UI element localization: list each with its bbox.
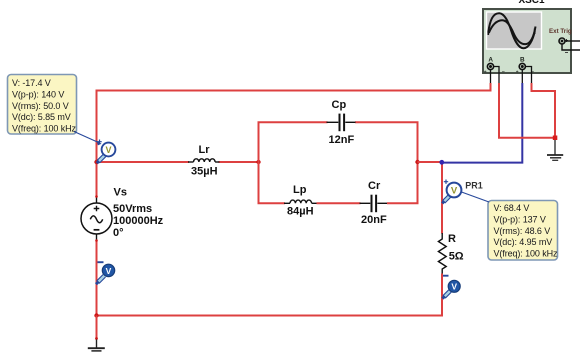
terminal A <box>487 63 493 69</box>
svg-text:V(p-p): 137 V: V(p-p): 137 V <box>494 214 546 224</box>
svg-text:0°: 0° <box>113 227 124 239</box>
resistor R <box>438 233 446 274</box>
svg-text:Ext Trig: Ext Trig <box>549 28 572 35</box>
svg-text:Lr: Lr <box>199 144 211 156</box>
svg-text:5Ω: 5Ω <box>449 251 464 263</box>
svg-text:Vs: Vs <box>114 187 127 199</box>
leader line PR1 <box>462 192 490 202</box>
svg-text:V: V <box>106 266 112 276</box>
svg-text:V(p-p): 140 V: V(p-p): 140 V <box>12 89 64 99</box>
svg-text:XSC1: XSC1 <box>518 0 545 6</box>
wire tank bottom right segment <box>387 202 419 204</box>
terminal polarity marks <box>484 71 534 73</box>
wire to ground bottom left <box>96 316 98 339</box>
svg-text:Cp: Cp <box>332 99 347 111</box>
wire bottom rail up to Vs minus <box>96 240 98 317</box>
svg-text:V(freq): 100 kHz: V(freq): 100 kHz <box>12 124 77 134</box>
svg-text:50Vrms: 50Vrms <box>113 203 152 215</box>
oscilloscope U: XSC1 body <box>483 9 571 73</box>
wire B+ blue to node <box>442 83 522 163</box>
svg-text:Cr: Cr <box>368 180 381 192</box>
pin A- <box>494 67 499 84</box>
svg-text:V: 68.4 V: V: 68.4 V <box>494 203 530 213</box>
ground (bottom left) <box>88 340 105 351</box>
scope trace B <box>489 20 536 44</box>
svg-text:B: B <box>520 57 525 64</box>
junction node tank left <box>256 160 260 164</box>
probe V1 (ref probe on input node) <box>97 140 116 164</box>
svg-text:84µH: 84µH <box>287 205 314 217</box>
inductor Lr <box>188 159 220 162</box>
wire tank bottom mid segment <box>317 202 361 204</box>
capacitor Cp <box>327 114 356 132</box>
pin B+ <box>521 70 523 84</box>
inductor Lp <box>284 200 318 203</box>
svg-text:V(rms): 50.0 V: V(rms): 50.0 V <box>12 101 69 111</box>
svg-text:V: V <box>105 145 111 155</box>
svg-text:35µH: 35µH <box>191 165 218 177</box>
svg-text:12nF: 12nF <box>329 134 355 146</box>
pin B- <box>525 67 531 84</box>
wire tank top right segment <box>355 121 419 123</box>
probe V2 (blue, Vs minus) <box>96 262 115 284</box>
probe PR1 <box>442 180 461 204</box>
ext trig - pin <box>562 44 580 50</box>
junction node blue <box>439 160 444 165</box>
svg-text:V: -17.4 V: V: -17.4 V <box>12 78 51 88</box>
probe V3 (blue, R bottom) <box>442 276 460 299</box>
svg-text:V(dc): 4.95 mV: V(dc): 4.95 mV <box>494 237 553 247</box>
svg-text:V(rms): 48.6 V: V(rms): 48.6 V <box>494 226 551 236</box>
svg-text:100000Hz: 100000Hz <box>113 215 164 227</box>
wire load node down to R <box>441 162 443 234</box>
wire tank left vertical <box>258 122 260 203</box>
junction node tank right <box>415 160 419 164</box>
wire tank right vertical <box>417 122 419 203</box>
wire tank right to load node <box>418 161 443 163</box>
svg-text:R: R <box>448 233 456 245</box>
ground (scope) <box>547 140 563 160</box>
wire R down to bottom rail <box>96 274 443 316</box>
svg-text:V: V <box>451 282 457 292</box>
junction node at Vs mid <box>94 160 98 164</box>
junction node bottom left <box>94 313 98 317</box>
svg-text:V(dc): 5.85 mV: V(dc): 5.85 mV <box>12 112 71 122</box>
svg-text:V: V <box>451 186 458 197</box>
svg-text:PR1: PR1 <box>465 181 483 191</box>
svg-text:V(freq): 100 kHz: V(freq): 100 kHz <box>494 249 559 259</box>
ext trig terminal <box>559 38 568 44</box>
wire B- to scope ground <box>532 83 556 136</box>
source Vs <box>81 195 112 242</box>
oscilloscope screen <box>487 12 542 49</box>
svg-text:20nF: 20nF <box>361 214 387 226</box>
svg-text:Lp: Lp <box>293 184 307 196</box>
wire tank bottom left segment <box>258 202 286 204</box>
capacitor Cr <box>360 195 388 213</box>
wire A- to scope ground <box>499 83 553 138</box>
junction square at scope ground <box>553 136 558 141</box>
scope trace A <box>488 13 535 48</box>
pin A+ <box>490 70 492 84</box>
probe tooltip box right (PR1) <box>488 201 558 261</box>
svg-text:A: A <box>488 57 493 64</box>
leader line left probe <box>74 132 99 143</box>
ext trig + pin <box>565 40 580 42</box>
probe tooltip box left <box>8 75 77 135</box>
terminal B <box>519 63 525 69</box>
wire mid rail Vs to tank <box>97 161 190 163</box>
wire A+ top rail to Vs <box>97 83 491 197</box>
wire tank top left segment <box>258 121 328 123</box>
